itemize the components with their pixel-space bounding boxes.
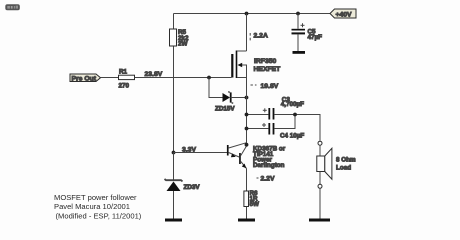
svg-text:4,700µF: 4,700µF bbox=[281, 101, 304, 108]
zener ZD15V bbox=[209, 78, 247, 113]
junction node output bbox=[293, 113, 297, 117]
MOSFET U1 IRF350 bbox=[231, 14, 281, 79]
resistor R5 bbox=[170, 29, 190, 48]
svg-text:19.8V: 19.8V bbox=[261, 83, 279, 90]
svg-text:HEXFET: HEXFET bbox=[254, 66, 282, 73]
svg-text:2W: 2W bbox=[178, 41, 188, 48]
svg-text:23.8V: 23.8V bbox=[145, 71, 163, 78]
wire source line bbox=[246, 78, 248, 146]
svg-text:8 Ohm: 8 Ohm bbox=[336, 156, 356, 163]
junction node C5 tap bbox=[296, 12, 300, 16]
wire R5 branch (left vertical) bbox=[173, 14, 175, 153]
wire base bbox=[174, 152, 228, 154]
wire gate bbox=[135, 77, 232, 79]
svg-text:270: 270 bbox=[119, 83, 130, 90]
svg-text:5W: 5W bbox=[250, 201, 260, 208]
svg-text:+40V: +40V bbox=[336, 11, 353, 18]
wire emitter bbox=[246, 169, 248, 192]
svg-text:Pavel Macura 10/2001: Pavel Macura 10/2001 bbox=[54, 202, 130, 211]
junction node zener-source bbox=[245, 96, 249, 100]
junction node base bbox=[172, 151, 176, 155]
ground R6 bbox=[238, 219, 255, 222]
resistor R6 bbox=[244, 190, 259, 208]
label 2.2V bbox=[257, 175, 275, 182]
wire output to speaker bbox=[274, 115, 320, 141]
ground speaker bbox=[309, 219, 330, 222]
logo mark bbox=[5, 4, 19, 10]
svg-text:ZD15V: ZD15V bbox=[215, 106, 235, 113]
label 19.8V bbox=[251, 83, 279, 90]
svg-text:Load: Load bbox=[336, 165, 351, 172]
ground C5 bbox=[293, 51, 306, 54]
junction node collector bbox=[245, 143, 249, 147]
capacitor C4 bbox=[247, 123, 305, 139]
resistor R1 bbox=[119, 68, 135, 89]
svg-text:ZD3V: ZD3V bbox=[184, 184, 201, 191]
wire +40V top rail bbox=[174, 13, 331, 15]
svg-text:(Modified - ESP, 11/2001): (Modified - ESP, 11/2001) bbox=[56, 212, 142, 221]
junction node C4 bbox=[245, 127, 249, 131]
junction node drain rail bbox=[245, 12, 249, 16]
label 2.2A bbox=[250, 33, 268, 43]
svg-text:3.3V: 3.3V bbox=[182, 146, 196, 153]
speaker LS1 bbox=[317, 141, 356, 188]
junction node gate bbox=[207, 76, 211, 80]
svg-text:R1: R1 bbox=[119, 68, 128, 75]
zener ZD3V bbox=[165, 153, 201, 219]
junction node C3 bbox=[245, 113, 249, 117]
wire C4 link bbox=[274, 115, 295, 129]
net flag +40V bbox=[330, 9, 356, 18]
ground ZD3V bbox=[165, 219, 182, 222]
svg-text:47µF: 47µF bbox=[308, 34, 323, 41]
svg-text:2.2A: 2.2A bbox=[254, 33, 268, 40]
svg-text:C4 10µF: C4 10µF bbox=[280, 132, 304, 139]
capacitor C5 bbox=[292, 14, 323, 52]
svg-text:MOSFET power follower: MOSFET power follower bbox=[54, 193, 137, 202]
net flag Pre Out bbox=[70, 74, 101, 82]
wire input bbox=[101, 77, 119, 79]
transistor Q2 Darlington KD367B bbox=[227, 143, 286, 170]
title text bbox=[54, 193, 142, 220]
svg-text:IRF350: IRF350 bbox=[254, 58, 277, 65]
svg-text:Darlington: Darlington bbox=[253, 162, 285, 169]
wire R6 to ground bbox=[246, 207, 248, 219]
svg-text:2.2V: 2.2V bbox=[261, 175, 275, 182]
wire speaker to ground bbox=[319, 188, 321, 218]
svg-text:Pre Out: Pre Out bbox=[72, 75, 97, 82]
capacitor C3 bbox=[247, 96, 305, 119]
